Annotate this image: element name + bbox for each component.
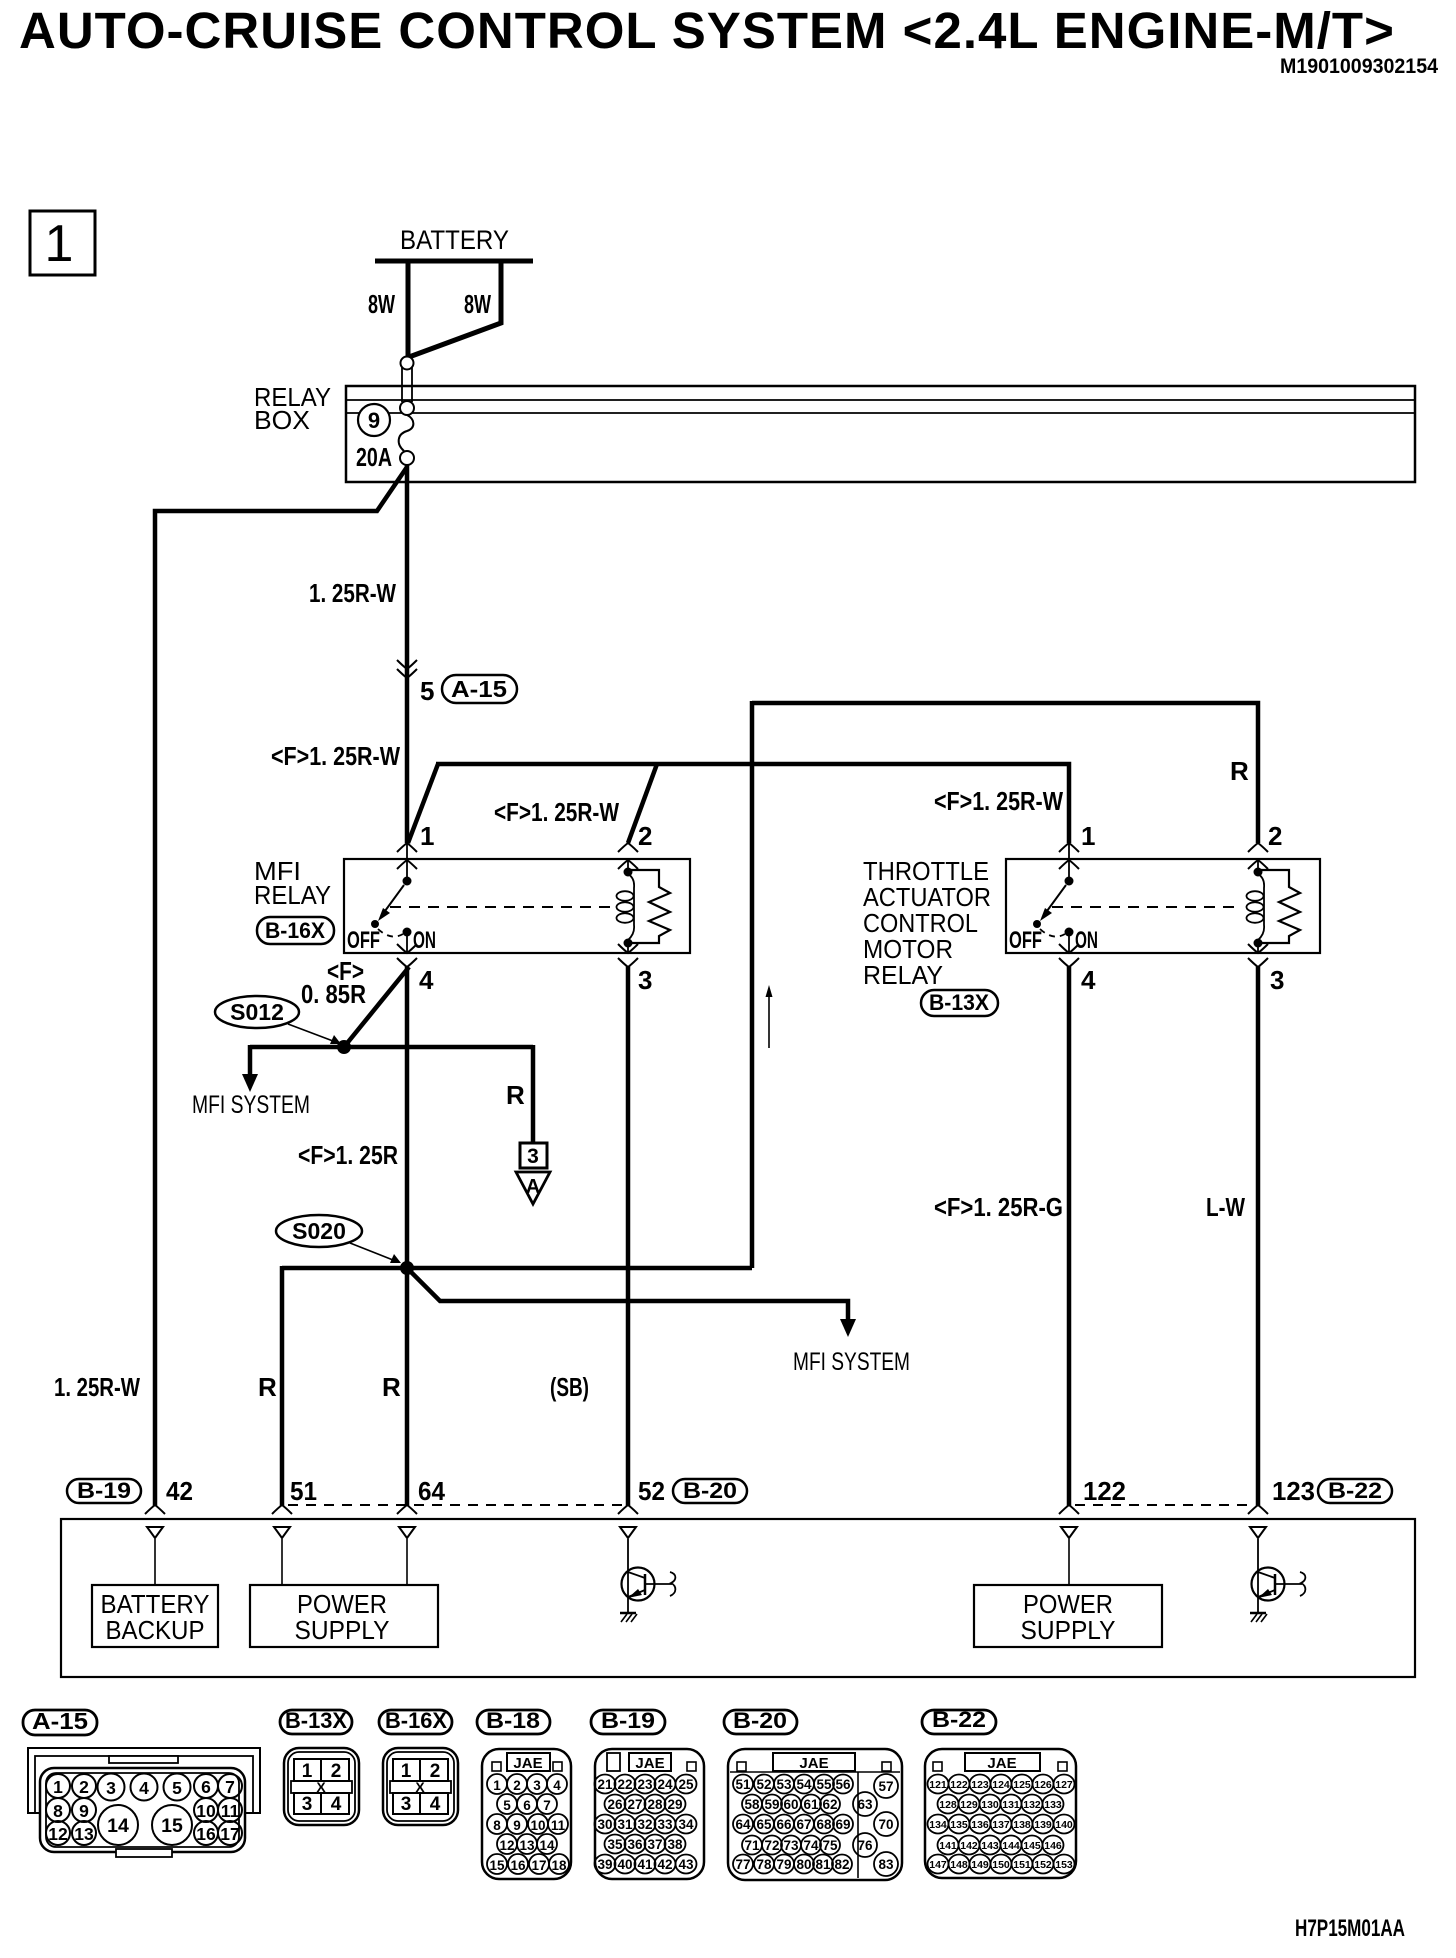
svg-text:JAE: JAE [799, 1755, 828, 1772]
svg-text:3: 3 [401, 1794, 412, 1815]
svg-text:MFI SYSTEM: MFI SYSTEM [192, 1091, 310, 1119]
svg-text:27: 27 [627, 1797, 642, 1812]
svg-text:17: 17 [531, 1858, 546, 1873]
svg-text:143: 143 [981, 1840, 999, 1852]
svg-text:33: 33 [657, 1817, 673, 1832]
svg-text:81: 81 [815, 1857, 831, 1872]
svg-text:55: 55 [816, 1777, 832, 1792]
pin 2 terminal chevrons [1248, 843, 1268, 852]
ground (pin 123 transistor) [1250, 1613, 1267, 1622]
svg-text:S012: S012 [230, 999, 284, 1025]
svg-text:B-13X: B-13X [929, 990, 989, 1015]
svg-text:8: 8 [53, 1801, 63, 1821]
svg-text:134: 134 [929, 1819, 947, 1831]
svg-text:3: 3 [527, 1145, 539, 1168]
node S020 [400, 1261, 414, 1275]
svg-text:1. 25R-W: 1. 25R-W [309, 578, 396, 608]
svg-text:80: 80 [796, 1857, 811, 1872]
wire vertical from S020 up [750, 701, 755, 1268]
splice S020 [276, 1215, 362, 1247]
svg-text:150: 150 [992, 1859, 1010, 1871]
throttle relay box [1006, 859, 1320, 953]
wire branch diagonal to left [155, 467, 407, 1506]
svg-text:15: 15 [161, 1815, 183, 1837]
svg-text:1: 1 [45, 215, 74, 273]
svg-text:62: 62 [822, 1797, 837, 1812]
svg-text:A-15: A-15 [451, 676, 507, 702]
svg-text:136: 136 [971, 1819, 989, 1831]
svg-text:36: 36 [627, 1837, 643, 1852]
node S012 [337, 1040, 351, 1054]
svg-text:37: 37 [647, 1837, 662, 1852]
svg-text:67: 67 [796, 1817, 811, 1832]
svg-text:54: 54 [796, 1777, 812, 1792]
wire S020 horizontal [282, 1266, 752, 1271]
svg-text:4: 4 [1081, 965, 1096, 995]
svg-text:16: 16 [510, 1858, 526, 1873]
svg-text:5: 5 [172, 1778, 182, 1798]
svg-text:122: 122 [950, 1779, 968, 1791]
wire MFI pin2 diagonal drop [628, 764, 657, 843]
svg-text:12: 12 [48, 1824, 68, 1844]
svg-text:56: 56 [835, 1777, 851, 1792]
wire MFI pin3 down to ECU pin 52 [626, 966, 631, 1506]
svg-text:145: 145 [1023, 1840, 1041, 1852]
dashed connector grouping line B-22 [1075, 1504, 1252, 1506]
svg-text:S020: S020 [292, 1218, 346, 1244]
svg-text:1: 1 [493, 1778, 501, 1793]
svg-text:MFI SYSTEM: MFI SYSTEM [793, 1348, 910, 1376]
connector B-19 view [591, 1710, 704, 1879]
svg-text:142: 142 [960, 1840, 978, 1852]
svg-text:11: 11 [551, 1818, 566, 1833]
svg-text:75: 75 [822, 1838, 838, 1853]
svg-text:131: 131 [1002, 1799, 1020, 1811]
svg-text:61: 61 [803, 1797, 819, 1812]
wire throttle pin3 down to ECU pin 123 [1256, 966, 1261, 1506]
throttle relay switch [1068, 843, 1070, 877]
svg-text:125: 125 [1013, 1779, 1031, 1791]
svg-text:R: R [258, 1372, 277, 1402]
connector B-20 view [724, 1710, 902, 1880]
svg-text:146: 146 [1044, 1840, 1062, 1852]
svg-text:A: A [526, 1176, 540, 1198]
svg-text:L-W: L-W [1206, 1192, 1245, 1222]
svg-text:4: 4 [419, 965, 434, 995]
connector pill B-22 [1318, 1479, 1392, 1503]
svg-text:3: 3 [106, 1778, 116, 1798]
svg-text:2: 2 [79, 1777, 89, 1797]
power supply box left [250, 1585, 438, 1647]
svg-text:22: 22 [617, 1777, 632, 1792]
svg-text:144: 144 [1002, 1840, 1020, 1852]
svg-text:6: 6 [523, 1798, 531, 1813]
svg-text:12: 12 [499, 1838, 514, 1853]
wire battery left lead [406, 261, 411, 358]
wire 0.85R diagonal to splice S012 [344, 967, 409, 1047]
svg-text:25: 25 [678, 1777, 694, 1792]
wire pin4 down to ECU pin 64 [405, 966, 410, 1506]
svg-text:9: 9 [368, 408, 380, 433]
svg-text:AUTO-CRUISE CONTROL SYSTEM <2.: AUTO-CRUISE CONTROL SYSTEM <2.4L ENGINE-… [19, 2, 1395, 59]
svg-text:135: 135 [950, 1819, 968, 1831]
svg-text:B-18: B-18 [486, 1708, 540, 1733]
svg-text:43: 43 [678, 1857, 694, 1872]
svg-text:69: 69 [835, 1817, 850, 1832]
svg-text:13: 13 [74, 1824, 94, 1844]
connector pill B-20 [673, 1479, 747, 1503]
svg-text:BATTERY: BATTERY [400, 225, 509, 255]
svg-text:JAE: JAE [987, 1755, 1016, 1772]
svg-text:7: 7 [225, 1777, 235, 1797]
svg-text:74: 74 [803, 1838, 819, 1853]
svg-text:63: 63 [857, 1797, 873, 1812]
svg-text:21: 21 [597, 1777, 613, 1792]
svg-text:52: 52 [638, 1476, 665, 1506]
svg-text:5: 5 [503, 1798, 511, 1813]
pin 3 terminal chevrons [618, 944, 638, 953]
svg-text:130: 130 [981, 1799, 999, 1811]
inter-system triangle A [516, 1172, 550, 1204]
wire horizontal upper bus to throttle relay pin2 [752, 703, 1258, 843]
svg-text:1: 1 [401, 1761, 412, 1782]
pin 4 terminal chevrons [1059, 944, 1079, 953]
svg-text:82: 82 [834, 1857, 849, 1872]
relay box bus line lower [346, 412, 1415, 414]
svg-text:140: 140 [1055, 1819, 1073, 1831]
svg-text:8W: 8W [368, 289, 395, 319]
svg-text:8W: 8W [464, 289, 491, 319]
svg-text:B-20: B-20 [683, 1478, 737, 1503]
wire to MFI system left arrow [248, 1045, 253, 1075]
svg-text:3: 3 [533, 1778, 541, 1793]
svg-text:X: X [415, 1779, 425, 1795]
connector B-22 view [922, 1710, 1076, 1878]
svg-text:2: 2 [331, 1761, 342, 1782]
MFI relay switch [406, 843, 408, 877]
svg-text:BOX: BOX [254, 405, 310, 435]
svg-text:126: 126 [1034, 1779, 1052, 1791]
svg-text:51: 51 [735, 1777, 751, 1792]
svg-text:42: 42 [166, 1476, 193, 1506]
svg-text:11: 11 [221, 1801, 240, 1821]
svg-text:57: 57 [878, 1779, 893, 1794]
svg-text:B-16X: B-16X [265, 918, 325, 943]
svg-text:64: 64 [418, 1476, 446, 1506]
svg-text:40: 40 [617, 1857, 632, 1872]
svg-text:2: 2 [513, 1778, 521, 1793]
svg-text:35: 35 [607, 1837, 623, 1852]
ECU input triangle pin52 [620, 1527, 636, 1538]
svg-text:78: 78 [756, 1857, 772, 1872]
svg-text:18: 18 [551, 1858, 567, 1873]
dashed connector grouping line B-20 [288, 1504, 624, 1506]
svg-text:13: 13 [519, 1838, 535, 1853]
svg-text:ON: ON [413, 927, 436, 954]
svg-text:1: 1 [302, 1761, 313, 1782]
wire ECU pin 51 drop [280, 1266, 285, 1506]
svg-text:1: 1 [420, 821, 434, 851]
svg-text:128: 128 [939, 1799, 957, 1811]
svg-text:24: 24 [657, 1777, 673, 1792]
connector pill B-16X [257, 917, 334, 944]
connector pill B-13X [921, 990, 998, 1016]
ground (pin 52 transistor) [620, 1613, 637, 1622]
svg-text:70: 70 [878, 1817, 893, 1832]
svg-text:9: 9 [513, 1818, 521, 1833]
relay box [346, 386, 1415, 482]
svg-text:A-15: A-15 [32, 1708, 88, 1734]
svg-text:SUPPLY: SUPPLY [295, 1615, 390, 1645]
svg-text:OFF: OFF [347, 927, 380, 954]
wire horizontal bus to throttle relay pin1 [436, 764, 1069, 843]
svg-text:42: 42 [657, 1857, 672, 1872]
pin 3 terminal chevrons [1248, 944, 1268, 953]
svg-text:137: 137 [992, 1819, 1010, 1831]
wire MFI pin1 diagonal riser [408, 764, 438, 843]
svg-text:32: 32 [637, 1817, 652, 1832]
fuse 9 20A [402, 367, 412, 402]
svg-text:0. 85R: 0. 85R [301, 979, 366, 1009]
power supply box right [974, 1585, 1162, 1647]
svg-text:RELAY: RELAY [863, 960, 943, 990]
connector B-16X view [379, 1710, 458, 1825]
svg-text:64: 64 [735, 1817, 751, 1832]
svg-text:<F>1. 25R-W: <F>1. 25R-W [934, 786, 1063, 816]
svg-text:2: 2 [1268, 821, 1282, 851]
svg-text:133: 133 [1044, 1799, 1062, 1811]
pin 4 terminal chevrons [397, 944, 417, 953]
svg-text:76: 76 [857, 1838, 873, 1853]
battery backup box [92, 1585, 218, 1647]
svg-text:BACKUP: BACKUP [106, 1615, 205, 1645]
svg-text:123: 123 [971, 1779, 989, 1791]
svg-text:R: R [1230, 756, 1249, 786]
svg-text:26: 26 [607, 1797, 623, 1812]
ECU input triangle pin123 [1250, 1527, 1266, 1538]
svg-text:34: 34 [678, 1817, 694, 1832]
svg-text:148: 148 [950, 1859, 968, 1871]
svg-text:OFF: OFF [1009, 927, 1042, 954]
svg-text:14: 14 [107, 1815, 129, 1837]
svg-text:10: 10 [196, 1801, 216, 1821]
battery bus bar [375, 259, 533, 264]
svg-text:151: 151 [1013, 1859, 1031, 1871]
svg-text:1: 1 [53, 1777, 63, 1797]
svg-text:53: 53 [776, 1777, 792, 1792]
fuse number circle 9 [358, 404, 390, 436]
transistor Q2 (pin 123 driver) [1252, 1539, 1306, 1613]
wire S012 horizontal [250, 1045, 533, 1050]
svg-text:31: 31 [617, 1817, 633, 1832]
svg-text:2: 2 [638, 821, 652, 851]
svg-text:B-19: B-19 [601, 1708, 655, 1733]
wire battery right lead [409, 261, 501, 357]
ECU input triangle pin64 [399, 1527, 415, 1538]
svg-text:147: 147 [929, 1859, 947, 1871]
svg-text:132: 132 [1023, 1799, 1041, 1811]
svg-text:<F>1. 25R-G: <F>1. 25R-G [934, 1192, 1063, 1222]
MFI relay coil [627, 860, 629, 870]
svg-text:B-13X: B-13X [285, 1708, 347, 1733]
direction arrow up [768, 992, 770, 1048]
svg-text:152: 152 [1034, 1859, 1052, 1871]
svg-text:15: 15 [489, 1858, 505, 1873]
svg-text:65: 65 [756, 1817, 772, 1832]
svg-text:R: R [382, 1372, 401, 1402]
svg-text:B-19: B-19 [77, 1478, 131, 1503]
svg-text:14: 14 [539, 1838, 555, 1853]
svg-text:4: 4 [139, 1778, 149, 1798]
connector B-13X view [280, 1710, 359, 1825]
svg-text:JAE: JAE [513, 1755, 542, 1772]
svg-text:83: 83 [878, 1857, 894, 1872]
svg-text:121: 121 [929, 1779, 947, 1791]
inter-system box 3 [520, 1143, 547, 1168]
svg-text:(SB): (SB) [550, 1372, 589, 1402]
svg-text:123: 123 [1272, 1476, 1315, 1506]
svg-text:17: 17 [220, 1824, 239, 1844]
svg-text:29: 29 [667, 1797, 682, 1812]
svg-text:41: 41 [637, 1857, 653, 1872]
svg-text:138: 138 [1013, 1819, 1031, 1831]
svg-text:59: 59 [764, 1797, 779, 1812]
svg-text:<F>1. 25R: <F>1. 25R [298, 1140, 398, 1170]
svg-text:3: 3 [638, 965, 652, 995]
svg-text:SUPPLY: SUPPLY [1021, 1615, 1116, 1645]
svg-text:124: 124 [992, 1779, 1010, 1791]
MFI relay coil parallel resistor [631, 870, 670, 943]
svg-text:23: 23 [637, 1777, 653, 1792]
svg-text:149: 149 [971, 1859, 989, 1871]
svg-text:1. 25R-W: 1. 25R-W [54, 1372, 140, 1402]
connector A-15 view [23, 1710, 260, 1857]
svg-text:20A: 20A [356, 442, 392, 472]
svg-text:77: 77 [735, 1857, 750, 1872]
svg-text:JAE: JAE [635, 1755, 664, 1772]
pin 1 terminal chevrons [397, 843, 417, 852]
svg-text:<F>1. 25R-W: <F>1. 25R-W [271, 741, 400, 771]
throttle relay coil [1257, 860, 1259, 870]
svg-text:RELAY: RELAY [254, 880, 331, 910]
wire R drop to triangle A [531, 1045, 536, 1143]
ECU input triangle pin42 [147, 1527, 163, 1538]
svg-text:<F>1. 25R-W: <F>1. 25R-W [494, 797, 619, 827]
svg-text:60: 60 [783, 1797, 798, 1812]
connector pill B-19 [67, 1479, 141, 1503]
svg-text:1: 1 [1081, 821, 1095, 851]
svg-text:B-22: B-22 [932, 1707, 986, 1732]
svg-text:B-22: B-22 [1328, 1478, 1382, 1503]
svg-text:M1901009302154: M1901009302154 [1280, 55, 1438, 78]
svg-text:28: 28 [647, 1797, 663, 1812]
svg-text:6: 6 [201, 1777, 211, 1797]
connector pill A-15 [442, 675, 517, 703]
svg-text:38: 38 [667, 1837, 683, 1852]
svg-text:16: 16 [196, 1824, 216, 1844]
ECU input triangle pin122 [1061, 1527, 1077, 1538]
wire throttle pin4 down to ECU pin 122 [1067, 966, 1072, 1506]
svg-text:B-16X: B-16X [385, 1708, 447, 1733]
connector B-18 view [477, 1710, 571, 1879]
svg-text:8: 8 [493, 1818, 501, 1833]
svg-text:4: 4 [331, 1794, 342, 1815]
svg-text:153: 153 [1055, 1859, 1073, 1871]
throttle relay coil parallel resistor [1261, 870, 1300, 943]
svg-text:B-20: B-20 [733, 1708, 787, 1733]
svg-text:66: 66 [776, 1817, 792, 1832]
svg-text:5: 5 [420, 676, 434, 706]
svg-text:129: 129 [960, 1799, 978, 1811]
svg-text:68: 68 [816, 1817, 832, 1832]
svg-text:H7P15M01AA: H7P15M01AA [1295, 1915, 1405, 1942]
svg-text:10: 10 [530, 1818, 545, 1833]
ECU input triangle pin51 [274, 1527, 290, 1538]
svg-text:9: 9 [79, 1801, 89, 1821]
svg-text:139: 139 [1034, 1819, 1052, 1831]
pin 2 terminal chevrons [618, 843, 638, 852]
inline connector 5 A-15 chevrons [397, 660, 417, 669]
MFI relay actuation dashed link [390, 906, 612, 908]
svg-text:39: 39 [597, 1857, 612, 1872]
splice S012 [215, 996, 299, 1028]
svg-text:4: 4 [430, 1794, 441, 1815]
svg-text:141: 141 [939, 1840, 957, 1852]
svg-text:4: 4 [553, 1778, 561, 1793]
svg-text:71: 71 [744, 1838, 760, 1853]
svg-text:79: 79 [776, 1857, 791, 1872]
MFI relay box [344, 859, 690, 953]
svg-text:ON: ON [1075, 927, 1098, 954]
svg-text:127: 127 [1055, 1779, 1073, 1791]
svg-text:122: 122 [1083, 1476, 1126, 1506]
svg-text:52: 52 [756, 1777, 771, 1792]
svg-text:3: 3 [302, 1794, 313, 1815]
svg-text:7: 7 [543, 1798, 551, 1813]
svg-text:58: 58 [744, 1797, 760, 1812]
svg-text:72: 72 [764, 1838, 779, 1853]
wire S020 diagonal to MFI system right [407, 1268, 848, 1320]
relay box bus line upper [346, 399, 1415, 401]
svg-text:X: X [316, 1779, 326, 1795]
svg-text:73: 73 [783, 1838, 799, 1853]
pin 1 terminal chevrons [1059, 843, 1079, 852]
svg-text:R: R [506, 1080, 525, 1110]
throttle relay actuation dashed link [1052, 906, 1242, 908]
figure number box 1 [30, 211, 95, 275]
svg-text:30: 30 [597, 1817, 612, 1832]
transistor Q1 (pin 52 driver) [622, 1539, 676, 1613]
svg-text:2: 2 [430, 1761, 441, 1782]
wire main feed down from fuse [405, 464, 410, 843]
svg-text:51: 51 [290, 1476, 317, 1506]
svg-text:3: 3 [1270, 965, 1284, 995]
